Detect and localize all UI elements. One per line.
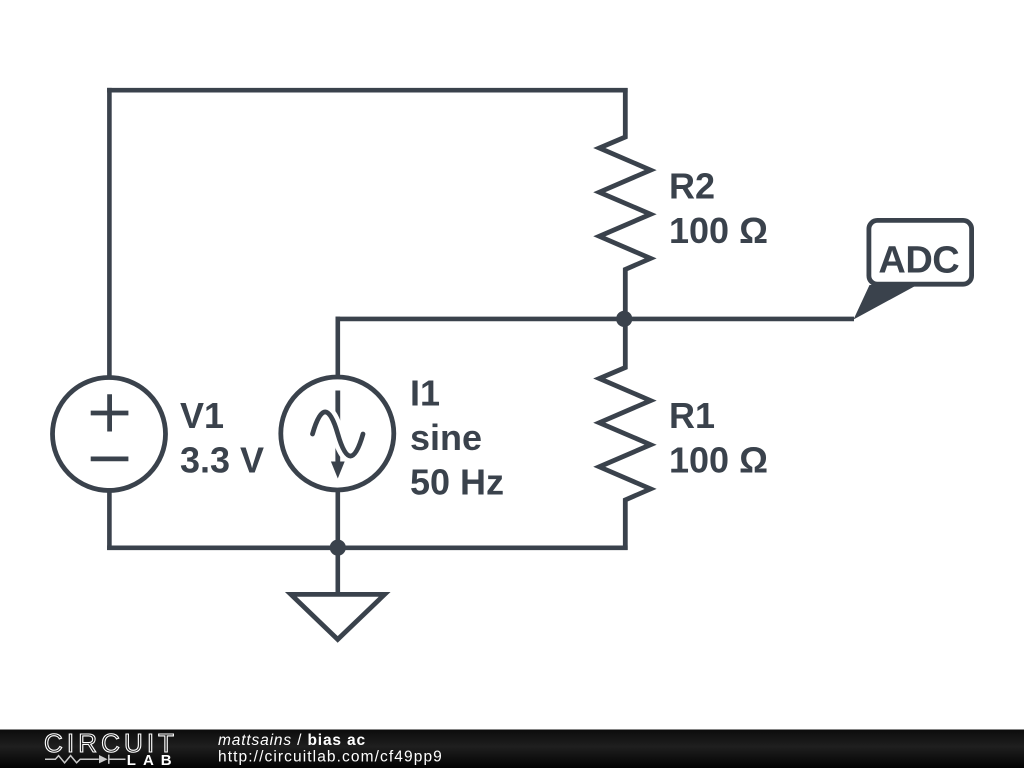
footer bar xyxy=(0,730,1024,768)
wire: top rail horizontal (V1 to R2) xyxy=(107,88,628,93)
svg-text:50 Hz: 50 Hz xyxy=(410,462,504,503)
svg-text:100 Ω: 100 Ω xyxy=(669,439,768,480)
wire: I1 bottom lead xyxy=(335,488,340,550)
svg-text:V1: V1 xyxy=(180,395,224,436)
svg-text:LAB: LAB xyxy=(127,752,179,768)
svg-text:mattsains / bias ac: mattsains / bias ac xyxy=(218,732,366,749)
ground xyxy=(291,594,385,639)
CircuitLab logo squiggle (resistor and diode) xyxy=(45,755,126,764)
resistor R2 xyxy=(599,88,650,321)
wire: left rail vertical (top rail to V1 +) xyxy=(107,88,112,379)
svg-text:R1: R1 xyxy=(669,395,715,436)
svg-text:sine: sine xyxy=(410,417,482,458)
junction node: R1/R2/ADC xyxy=(616,311,632,327)
wire: ground stem xyxy=(335,545,340,595)
svg-text:3.3 V: 3.3 V xyxy=(180,439,264,480)
svg-text:I1: I1 xyxy=(410,373,440,414)
current source I1 xyxy=(281,377,394,490)
flag ADC body xyxy=(869,220,972,284)
wire: I1 top lead up to middle rail xyxy=(335,317,340,379)
flag ADC pointer xyxy=(854,285,918,320)
svg-text:ADC: ADC xyxy=(878,239,959,281)
voltage source V1 xyxy=(53,378,166,491)
junction node: ground/bottom rail xyxy=(330,540,346,556)
svg-text:R2: R2 xyxy=(669,165,715,206)
svg-text:100 Ω: 100 Ω xyxy=(669,210,768,251)
resistor R1 xyxy=(599,316,650,550)
wire: V1 negative lead xyxy=(107,488,112,550)
wire: middle rail (node to ADC flag) xyxy=(336,317,855,322)
svg-text:http://circuitlab.com/cf49pp9: http://circuitlab.com/cf49pp9 xyxy=(218,749,443,766)
wire: bottom rail horizontal (V1 to I1 to R1) xyxy=(107,545,628,550)
